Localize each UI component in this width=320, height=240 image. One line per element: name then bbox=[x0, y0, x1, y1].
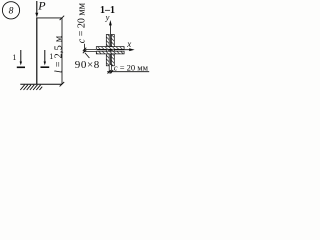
svg-text:x: x bbox=[126, 39, 131, 49]
section mark right: arrow, cut bar, label 1 bbox=[41, 50, 54, 67]
plate strip horizontal top (90x8) bbox=[96, 47, 124, 50]
svg-text:1: 1 bbox=[12, 53, 16, 62]
figure number circle 8 bbox=[2, 2, 19, 19]
plate strip horizontal bottom (90x8) bbox=[96, 51, 124, 54]
svg-text:90×8: 90×8 bbox=[75, 59, 100, 71]
svg-text:c = 20 мм: c = 20 мм bbox=[76, 2, 87, 43]
x axis bbox=[97, 48, 135, 51]
svg-text:c = 20 мм: c = 20 мм bbox=[114, 62, 149, 72]
dimension line l bbox=[61, 18, 63, 84]
dimension tick bottom bbox=[60, 82, 65, 86]
y axis bbox=[109, 20, 112, 65]
svg-text:P: P bbox=[37, 0, 46, 13]
column (vertical rod) bbox=[36, 17, 38, 84]
plate strip vertical right (90x8) bbox=[111, 35, 114, 66]
dimension tick top bbox=[60, 16, 65, 20]
svg-text:l = 2,5 м: l = 2,5 м bbox=[53, 35, 64, 73]
dimension c bottom: extension lines, dimension line, slash ticks bbox=[107, 66, 149, 74]
section mark left: label 1, arrow, cut bar bbox=[12, 50, 25, 67]
fixed support base line bbox=[20, 83, 62, 85]
force P arrow bbox=[35, 1, 38, 17]
svg-text:y: y bbox=[105, 12, 110, 22]
dimension c left: dimension line, extension lines, slash ticks bbox=[83, 44, 96, 58]
plate strip vertical left (90x8) bbox=[106, 35, 109, 66]
svg-text:1: 1 bbox=[49, 52, 53, 61]
svg-text:8: 8 bbox=[9, 7, 14, 17]
support hatching bbox=[20, 85, 42, 90]
top extension line bbox=[37, 17, 62, 19]
